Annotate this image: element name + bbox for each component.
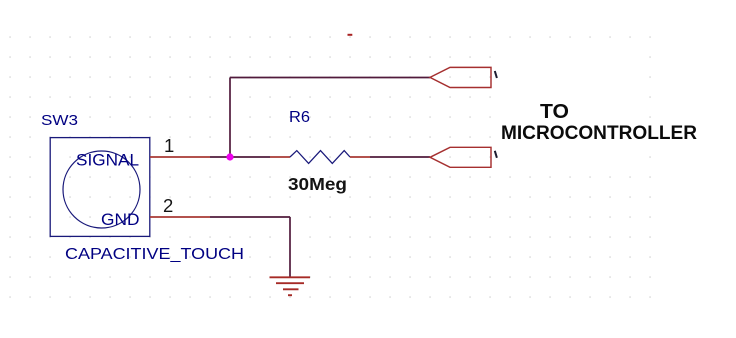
top connector label tick (495, 71, 497, 78)
wire down to ground (289, 217, 291, 277)
wire junction up (229, 78, 231, 158)
pin 2 (GND pin stub) (150, 216, 210, 218)
wire junction to resistor (230, 156, 270, 158)
wire top horizontal to port (230, 77, 430, 79)
svg-text:1: 1 (164, 135, 174, 156)
switch SW3 body rectangle (50, 138, 150, 237)
svg-text:2: 2 (163, 195, 173, 216)
stray red dash (348, 34, 353, 36)
svg-text:SW3: SW3 (41, 112, 78, 129)
svg-text:SIGNAL: SIGNAL (76, 151, 139, 170)
white text backdrop (503, 44, 648, 172)
junction node (226, 153, 233, 160)
svg-text:R6: R6 (289, 109, 310, 126)
off-page connector (bottom) (430, 147, 491, 167)
switch SW3 body circle (63, 151, 140, 228)
ground symbol (270, 277, 311, 295)
svg-text:30Meg: 30Meg (288, 174, 347, 194)
resistor R6 zigzag body (290, 151, 350, 164)
wire resistor to lower port (370, 156, 430, 158)
bottom connector label tick (495, 151, 497, 158)
resistor R6 left pin stub (270, 156, 290, 158)
resistor R6 right pin stub (350, 156, 370, 158)
svg-text:CAPACITIVE_TOUCH: CAPACITIVE_TOUCH (65, 246, 244, 263)
svg-text:MICROCONTROLLER: MICROCONTROLLER (501, 123, 697, 144)
wire pin1 to junction (210, 156, 230, 158)
svg-text:TO: TO (540, 101, 569, 123)
svg-text:GND: GND (101, 210, 140, 229)
wire pin2 horizontal (210, 216, 290, 218)
pin 1 (SIGNAL pin stub) (150, 156, 210, 158)
off-page connector (top) (430, 67, 491, 87)
